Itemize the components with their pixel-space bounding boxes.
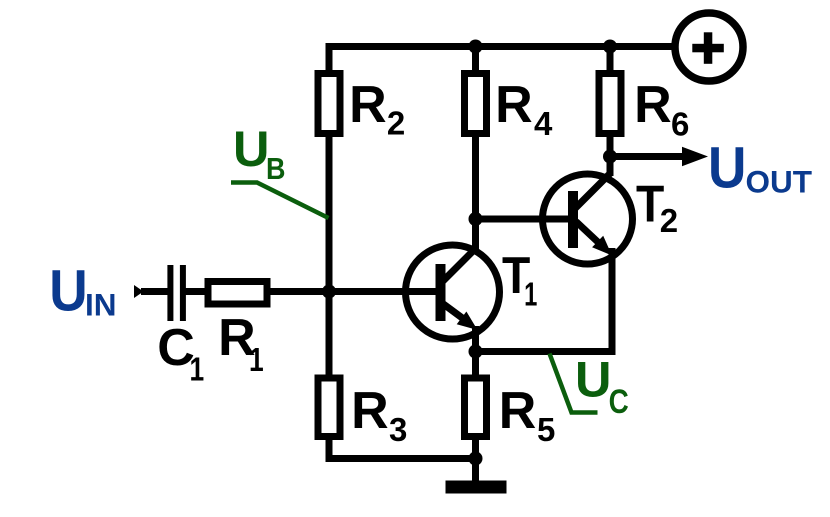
output arrowhead	[682, 147, 708, 166]
svg-text:C: C	[609, 382, 629, 420]
wire R6 bottom lead / T2 collector wire	[607, 135, 614, 176]
svg-text:2: 2	[387, 105, 405, 142]
junction dot T1 collector node	[469, 212, 483, 226]
wire R2 top lead	[326, 43, 333, 72]
junction dot base node B	[322, 285, 336, 299]
wire input to capacitor	[141, 288, 169, 295]
node B pointer line	[231, 183, 329, 219]
resistor R4	[465, 74, 554, 143]
resistor R1	[208, 282, 267, 379]
input arrow	[134, 285, 144, 298]
transistor T1	[436, 247, 538, 330]
svg-text:R: R	[634, 76, 672, 134]
svg-text:R: R	[349, 76, 387, 134]
transistor T2 body circle	[543, 174, 633, 264]
node C pointer line	[550, 354, 598, 413]
transistor T1 body circle	[406, 245, 500, 339]
transistor T2	[568, 174, 678, 256]
svg-text:1: 1	[524, 277, 537, 314]
svg-text:5: 5	[537, 411, 555, 448]
wire R6 top lead	[607, 43, 614, 72]
junction dot ground node	[469, 452, 483, 466]
wire T2 emitter down and left to emitter node	[472, 248, 612, 352]
svg-text:R: R	[495, 76, 533, 134]
svg-text:2: 2	[660, 202, 678, 239]
wire R3 bottom lead and bottom wire	[329, 438, 478, 459]
resistor R2	[318, 74, 405, 142]
junction dot U_OUT node	[603, 150, 617, 164]
wire R4 bottom lead / T1 collector wire	[472, 135, 479, 250]
svg-text:R: R	[351, 382, 389, 440]
wire R5 bottom lead	[472, 437, 479, 462]
svg-text:OUT: OUT	[746, 164, 813, 200]
wire R1 to base node	[266, 288, 329, 295]
svg-text:R: R	[499, 382, 537, 440]
wire capacitor to R1	[186, 288, 210, 295]
resistor R3	[318, 378, 407, 448]
resistor R6	[599, 74, 689, 143]
wire R4 top lead	[472, 43, 479, 72]
label U_B	[233, 120, 285, 186]
svg-text:3: 3	[389, 411, 407, 448]
junction dot emitter node	[469, 345, 483, 359]
wire ground stem	[472, 455, 479, 481]
svg-text:1: 1	[190, 352, 205, 388]
junction dot rail-R4	[469, 40, 483, 54]
svg-text:U: U	[49, 257, 87, 323]
wire top supply rail	[326, 43, 674, 50]
svg-text:U: U	[575, 351, 611, 408]
svg-text:U: U	[233, 120, 269, 177]
svg-text:6: 6	[671, 106, 689, 143]
wire U_OUT node to arrow	[610, 153, 686, 160]
resistor R5	[465, 378, 556, 448]
junction dot rail-R6	[603, 40, 617, 54]
label U_OUT	[708, 134, 812, 200]
svg-text:1: 1	[249, 342, 264, 378]
wire R2 bottom lead to base node to R3 top	[326, 134, 333, 377]
svg-text:B: B	[266, 152, 285, 186]
svg-text:IN: IN	[85, 287, 117, 323]
capacitor C1	[157, 265, 204, 388]
power supply plus terminal	[675, 13, 743, 81]
wire T1 base wire	[326, 288, 439, 295]
wire R5 top lead	[472, 326, 479, 380]
label U_C	[575, 351, 629, 421]
svg-text:4: 4	[534, 105, 553, 142]
svg-text:U: U	[708, 134, 746, 200]
ground	[446, 481, 507, 494]
wire T2 base wire	[476, 216, 571, 223]
label U_IN	[49, 257, 116, 323]
